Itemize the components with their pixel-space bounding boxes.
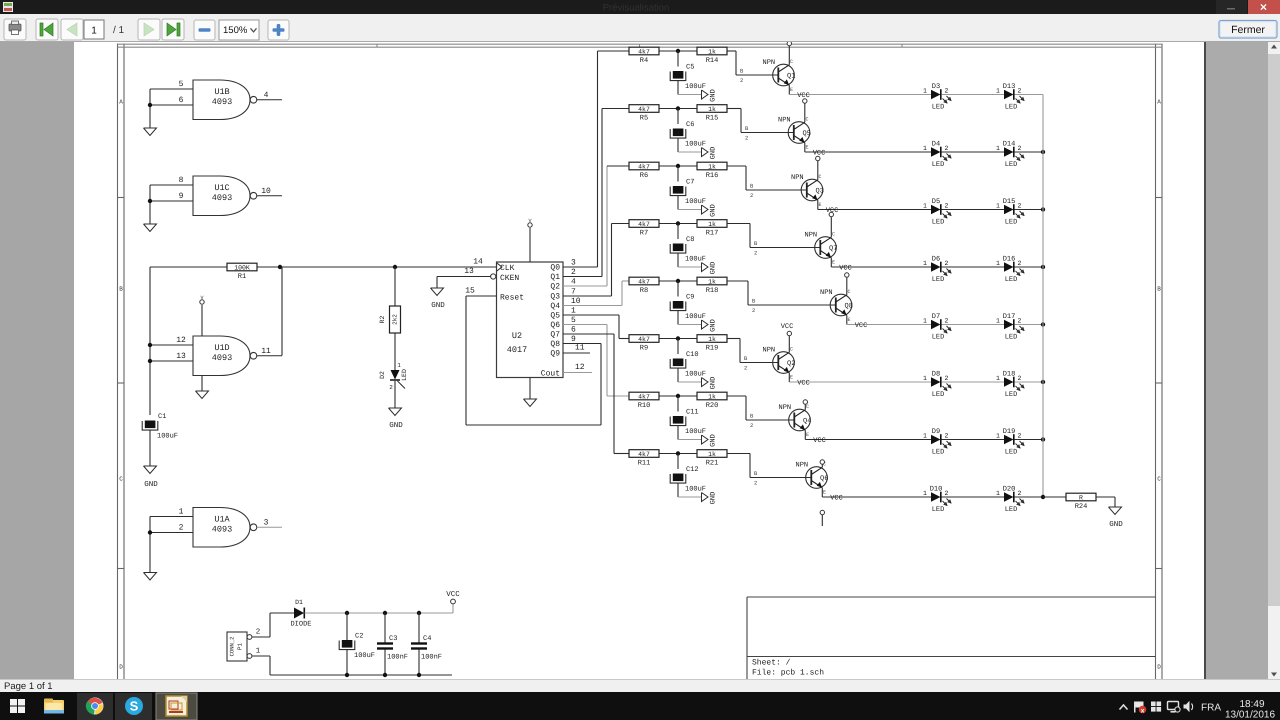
svg-text:2: 2 <box>745 135 748 142</box>
svg-text:NPN: NPN <box>778 117 791 125</box>
svg-text:4k7: 4k7 <box>638 48 650 55</box>
svg-text:C9: C9 <box>686 294 694 302</box>
svg-text:4093: 4093 <box>212 193 232 203</box>
svg-text:2: 2 <box>1018 318 1022 325</box>
svg-text:C8: C8 <box>686 236 694 244</box>
svg-text:LED: LED <box>932 334 945 342</box>
svg-text:13: 13 <box>464 267 474 276</box>
svg-text:GND: GND <box>710 147 718 160</box>
svg-text:6: 6 <box>179 96 184 105</box>
svg-text:150%: 150% <box>223 25 248 36</box>
svg-text:D3: D3 <box>932 83 940 91</box>
svg-text:Q7: Q7 <box>829 245 837 253</box>
svg-text:2: 2 <box>1018 433 1022 440</box>
svg-text:2: 2 <box>571 268 576 277</box>
svg-text:9: 9 <box>179 192 184 201</box>
svg-text:Q2: Q2 <box>787 360 795 368</box>
svg-text:Fermer: Fermer <box>1231 24 1265 36</box>
svg-text:2: 2 <box>945 375 949 382</box>
svg-text:100uF: 100uF <box>685 313 706 321</box>
svg-text:2: 2 <box>754 250 757 257</box>
svg-text:LED: LED <box>1005 161 1018 169</box>
svg-text:V: V <box>200 295 203 301</box>
svg-text:2k2: 2k2 <box>392 314 399 325</box>
svg-text:D10: D10 <box>930 486 943 494</box>
svg-text:E: E <box>790 375 793 381</box>
svg-text:2: 2 <box>945 433 949 440</box>
svg-text:4: 4 <box>264 91 269 100</box>
svg-text:NPN: NPN <box>763 59 776 67</box>
svg-text:R18: R18 <box>706 287 719 295</box>
svg-text:E: E <box>819 202 822 208</box>
svg-text:1: 1 <box>996 88 1000 95</box>
svg-text:1: 1 <box>923 260 927 267</box>
svg-text:R9: R9 <box>640 345 648 353</box>
svg-text:11: 11 <box>575 344 585 353</box>
svg-text:2: 2 <box>945 260 949 267</box>
svg-text:C2: C2 <box>355 633 363 641</box>
svg-text:2: 2 <box>754 480 757 487</box>
svg-text:13/01/2016: 13/01/2016 <box>1225 710 1275 720</box>
svg-text:D: D <box>1157 664 1161 671</box>
svg-text:4k7: 4k7 <box>638 106 650 113</box>
svg-text:1k: 1k <box>708 48 716 55</box>
svg-text:2: 2 <box>1018 375 1022 382</box>
svg-text:U1C: U1C <box>214 183 229 193</box>
svg-text:1: 1 <box>996 318 1000 325</box>
svg-text:C3: C3 <box>389 635 397 643</box>
svg-text:Q3: Q3 <box>550 293 560 302</box>
svg-text:✕: ✕ <box>1260 3 1268 14</box>
svg-text:LED: LED <box>1005 506 1018 514</box>
svg-text:R7: R7 <box>640 230 648 238</box>
svg-text:2: 2 <box>945 490 949 497</box>
svg-text:1k: 1k <box>708 336 716 343</box>
svg-text:C11: C11 <box>686 409 699 417</box>
svg-text:U2: U2 <box>512 331 522 341</box>
svg-text:D17: D17 <box>1003 313 1016 321</box>
svg-text:E: E <box>823 490 826 496</box>
svg-text:D19: D19 <box>1003 428 1016 436</box>
svg-text:V: V <box>528 218 531 224</box>
svg-text:100uF: 100uF <box>354 652 375 660</box>
svg-text:LED: LED <box>932 104 945 112</box>
svg-text:C: C <box>832 232 835 238</box>
svg-text:U1A: U1A <box>214 515 230 525</box>
svg-text:A: A <box>119 99 123 106</box>
svg-text:E: E <box>790 87 793 93</box>
svg-text:R15: R15 <box>706 115 719 123</box>
svg-text:R6: R6 <box>640 172 648 180</box>
svg-text:VCC: VCC <box>446 590 460 599</box>
svg-text:4k7: 4k7 <box>638 221 650 228</box>
svg-text:Page 1 of 1: Page 1 of 1 <box>4 681 53 692</box>
svg-text:100uF: 100uF <box>685 486 706 494</box>
svg-text:GND: GND <box>431 301 445 310</box>
svg-text:CKEN: CKEN <box>500 274 519 283</box>
svg-text:2: 2 <box>744 365 747 372</box>
svg-text:Q5: Q5 <box>550 312 560 321</box>
svg-text:C12: C12 <box>686 466 699 474</box>
svg-text:C5: C5 <box>686 64 694 72</box>
svg-text:4k7: 4k7 <box>638 163 650 170</box>
svg-text:R17: R17 <box>706 230 719 238</box>
svg-text:5: 5 <box>571 316 576 325</box>
svg-text:12: 12 <box>575 363 585 372</box>
svg-text:1: 1 <box>397 362 401 369</box>
svg-text:NPN: NPN <box>763 347 776 355</box>
svg-text:100uF: 100uF <box>685 256 706 264</box>
svg-text:C: C <box>1157 476 1161 483</box>
svg-text:R4: R4 <box>640 57 648 65</box>
svg-text:2: 2 <box>1018 88 1022 95</box>
svg-text:13: 13 <box>176 352 186 361</box>
svg-text:R1: R1 <box>238 273 246 281</box>
svg-text:GND: GND <box>710 492 718 505</box>
svg-text:R11: R11 <box>638 460 651 468</box>
svg-text:GND: GND <box>389 421 403 430</box>
svg-text:4093: 4093 <box>212 525 232 535</box>
svg-text:A: A <box>1157 99 1161 106</box>
svg-text:U1B: U1B <box>214 87 229 97</box>
svg-text:Q4: Q4 <box>550 302 560 311</box>
svg-text:E: E <box>848 317 851 323</box>
svg-text:1: 1 <box>996 203 1000 210</box>
svg-text:FRA: FRA <box>1201 703 1221 714</box>
svg-text:GND: GND <box>710 89 718 102</box>
svg-text:VCC: VCC <box>781 323 794 331</box>
svg-text:C: C <box>790 347 793 353</box>
svg-text:1: 1 <box>256 648 261 656</box>
svg-text:GND: GND <box>710 262 718 275</box>
svg-text:D7: D7 <box>932 313 940 321</box>
svg-text:GND: GND <box>144 480 158 489</box>
svg-text:1k: 1k <box>708 278 716 285</box>
svg-text:C: C <box>819 174 822 180</box>
svg-text:VCC: VCC <box>797 380 810 388</box>
svg-text:C: C <box>848 289 851 295</box>
svg-text:4k7: 4k7 <box>638 393 650 400</box>
svg-text:Q8: Q8 <box>845 303 853 311</box>
svg-text:Prévisualisation: Prévisualisation <box>603 3 670 14</box>
svg-text:1: 1 <box>996 433 1000 440</box>
svg-text:2: 2 <box>945 88 949 95</box>
svg-text:Q0: Q0 <box>550 264 560 273</box>
svg-text:LED: LED <box>932 219 945 227</box>
svg-text:U1D: U1D <box>214 343 229 353</box>
svg-text:Q7: Q7 <box>550 331 560 340</box>
svg-text:E: E <box>806 145 809 151</box>
svg-text:1k: 1k <box>708 451 716 458</box>
svg-text:NPN: NPN <box>820 289 833 297</box>
svg-text:Q3: Q3 <box>816 188 824 196</box>
svg-text:NPN: NPN <box>805 232 818 240</box>
svg-text:D16: D16 <box>1003 256 1016 264</box>
svg-text:R14: R14 <box>706 57 719 65</box>
svg-text:1: 1 <box>996 145 1000 152</box>
svg-text:Sheet: /: Sheet: / <box>752 659 791 668</box>
svg-text:D20: D20 <box>1003 486 1016 494</box>
svg-text:12: 12 <box>176 336 186 345</box>
svg-text:100uF: 100uF <box>685 83 706 91</box>
svg-text:100uF: 100uF <box>685 371 706 379</box>
svg-text:3: 3 <box>264 518 269 527</box>
svg-text:GND: GND <box>710 319 718 332</box>
svg-text:P1: P1 <box>237 643 244 651</box>
svg-text:VCC: VCC <box>855 322 868 330</box>
svg-text:E: E <box>832 260 835 266</box>
svg-text:D15: D15 <box>1003 198 1016 206</box>
svg-text:C7: C7 <box>686 179 694 187</box>
svg-text:1: 1 <box>923 88 927 95</box>
svg-text:1: 1 <box>923 490 927 497</box>
svg-text:1k: 1k <box>708 163 716 170</box>
svg-text:2: 2 <box>1018 490 1022 497</box>
svg-text:1: 1 <box>179 508 184 517</box>
svg-text:2: 2 <box>752 307 755 314</box>
svg-text:100uF: 100uF <box>685 428 706 436</box>
svg-text:Reset: Reset <box>500 294 524 303</box>
svg-text:1k: 1k <box>708 221 716 228</box>
svg-text:1: 1 <box>923 145 927 152</box>
svg-text:C1: C1 <box>158 413 166 421</box>
svg-text:D: D <box>119 664 123 671</box>
svg-text:4k7: 4k7 <box>638 278 650 285</box>
svg-text:1: 1 <box>571 307 576 316</box>
svg-text:C: C <box>806 404 809 410</box>
svg-text:CONN_2: CONN_2 <box>229 637 236 657</box>
svg-text:1: 1 <box>923 433 927 440</box>
svg-text:LED: LED <box>932 161 945 169</box>
svg-text:18:49: 18:49 <box>1239 699 1264 710</box>
svg-text:C4: C4 <box>423 635 431 643</box>
svg-text:NPN: NPN <box>796 462 809 470</box>
svg-text:100nF: 100nF <box>421 654 442 662</box>
svg-text:1: 1 <box>923 203 927 210</box>
svg-text:Q1: Q1 <box>787 73 795 81</box>
svg-text:14: 14 <box>473 258 483 267</box>
svg-text:LED: LED <box>1005 449 1018 457</box>
svg-text:VCC: VCC <box>839 265 852 273</box>
svg-text:LED: LED <box>932 276 945 284</box>
svg-text:Cout: Cout <box>541 370 560 379</box>
svg-text:x: x <box>1141 707 1145 714</box>
svg-text:C: C <box>119 476 123 483</box>
svg-text:R5: R5 <box>640 115 648 123</box>
svg-text:E: E <box>806 432 809 438</box>
svg-text:4k7: 4k7 <box>638 336 650 343</box>
svg-text:D5: D5 <box>932 198 940 206</box>
svg-text:LED: LED <box>1005 276 1018 284</box>
svg-text:GND: GND <box>1109 520 1123 529</box>
svg-text:Q2: Q2 <box>550 283 560 292</box>
svg-text:/ 1: / 1 <box>113 25 125 36</box>
svg-text:4: 4 <box>571 278 576 287</box>
svg-text:C: C <box>806 117 809 123</box>
svg-text:2: 2 <box>179 524 184 533</box>
svg-text:CLK: CLK <box>500 264 515 273</box>
svg-text:4k7: 4k7 <box>638 451 650 458</box>
svg-text:100nF: 100nF <box>387 654 408 662</box>
svg-text:2: 2 <box>389 384 393 391</box>
svg-text:D2: D2 <box>379 371 386 379</box>
svg-text:R8: R8 <box>640 287 648 295</box>
svg-text:2: 2 <box>750 192 753 199</box>
svg-text:LED: LED <box>932 506 945 514</box>
svg-text:D1: D1 <box>295 599 303 606</box>
svg-text:2: 2 <box>750 422 753 429</box>
svg-text:2: 2 <box>740 77 743 84</box>
svg-text:R21: R21 <box>706 460 719 468</box>
svg-text:Q6: Q6 <box>820 475 828 483</box>
svg-text:R: R <box>1079 494 1083 501</box>
svg-text:2: 2 <box>945 203 949 210</box>
svg-text:C10: C10 <box>686 351 699 359</box>
svg-text:4093: 4093 <box>212 353 232 363</box>
svg-text:3: 3 <box>571 259 576 268</box>
svg-text:R19: R19 <box>706 345 719 353</box>
svg-text:File: pcb 1.sch: File: pcb 1.sch <box>752 669 824 678</box>
svg-text:11: 11 <box>261 347 271 356</box>
svg-text:2: 2 <box>1018 260 1022 267</box>
svg-text:Q8: Q8 <box>550 340 560 349</box>
svg-text:1k: 1k <box>708 393 716 400</box>
svg-text:100uF: 100uF <box>685 141 706 149</box>
svg-text:B: B <box>119 286 123 293</box>
svg-text:15: 15 <box>465 287 475 296</box>
svg-text:DIODE: DIODE <box>290 621 311 629</box>
svg-text:5: 5 <box>179 80 184 89</box>
svg-text:Q9: Q9 <box>550 350 560 359</box>
svg-text:D13: D13 <box>1003 83 1016 91</box>
svg-text:LED: LED <box>1005 334 1018 342</box>
svg-text:1k: 1k <box>708 106 716 113</box>
svg-text:1: 1 <box>996 490 1000 497</box>
svg-text:C: C <box>790 59 793 65</box>
svg-text:Q4: Q4 <box>803 418 811 426</box>
svg-text:2: 2 <box>1018 145 1022 152</box>
svg-text:R24: R24 <box>1075 503 1088 511</box>
svg-text:4093: 4093 <box>212 97 232 107</box>
svg-text:R20: R20 <box>706 402 719 410</box>
svg-text:4017: 4017 <box>507 345 527 355</box>
svg-text:R16: R16 <box>706 172 719 180</box>
svg-text:D18: D18 <box>1003 371 1016 379</box>
svg-text:Q5: Q5 <box>803 130 811 138</box>
svg-text:Q6: Q6 <box>550 321 560 330</box>
svg-text:LED: LED <box>932 391 945 399</box>
svg-text:10: 10 <box>571 297 581 306</box>
svg-text:D8: D8 <box>932 371 940 379</box>
svg-text:1: 1 <box>923 318 927 325</box>
svg-text:GND: GND <box>710 204 718 217</box>
svg-text:10: 10 <box>261 187 271 196</box>
svg-text:D14: D14 <box>1003 141 1016 149</box>
svg-text:2: 2 <box>1018 203 1022 210</box>
svg-text:LED: LED <box>1005 219 1018 227</box>
svg-text:C6: C6 <box>686 121 694 129</box>
svg-text:8: 8 <box>179 176 184 185</box>
svg-text:R2: R2 <box>379 316 386 324</box>
svg-text:D9: D9 <box>932 428 940 436</box>
svg-text:2: 2 <box>256 628 261 637</box>
svg-text:2: 2 <box>945 318 949 325</box>
svg-text:2: 2 <box>945 145 949 152</box>
svg-text:1: 1 <box>923 375 927 382</box>
svg-text:R10: R10 <box>638 402 651 410</box>
svg-text:D6: D6 <box>932 256 940 264</box>
svg-text:GND: GND <box>710 377 718 390</box>
svg-text:NPN: NPN <box>791 174 804 182</box>
svg-text:1: 1 <box>996 375 1000 382</box>
svg-text:LED: LED <box>932 449 945 457</box>
svg-text:VCC: VCC <box>813 437 826 445</box>
svg-text:100uF: 100uF <box>685 198 706 206</box>
svg-text:VCC: VCC <box>830 495 843 503</box>
svg-text:S: S <box>130 699 139 714</box>
svg-text:100uF: 100uF <box>157 433 178 441</box>
svg-text:B: B <box>1157 286 1161 293</box>
svg-text:LED: LED <box>1005 104 1018 112</box>
svg-text:LED: LED <box>1005 391 1018 399</box>
svg-text:7: 7 <box>571 288 576 297</box>
svg-text:GND: GND <box>710 434 718 447</box>
svg-text:6: 6 <box>571 326 576 335</box>
svg-text:100K: 100K <box>234 264 250 271</box>
svg-text:1: 1 <box>91 26 97 37</box>
svg-text:LED: LED <box>401 369 408 381</box>
svg-text:Q1: Q1 <box>550 273 560 282</box>
svg-text:NPN: NPN <box>779 404 792 412</box>
svg-text:1: 1 <box>996 260 1000 267</box>
svg-text:D4: D4 <box>932 141 940 149</box>
